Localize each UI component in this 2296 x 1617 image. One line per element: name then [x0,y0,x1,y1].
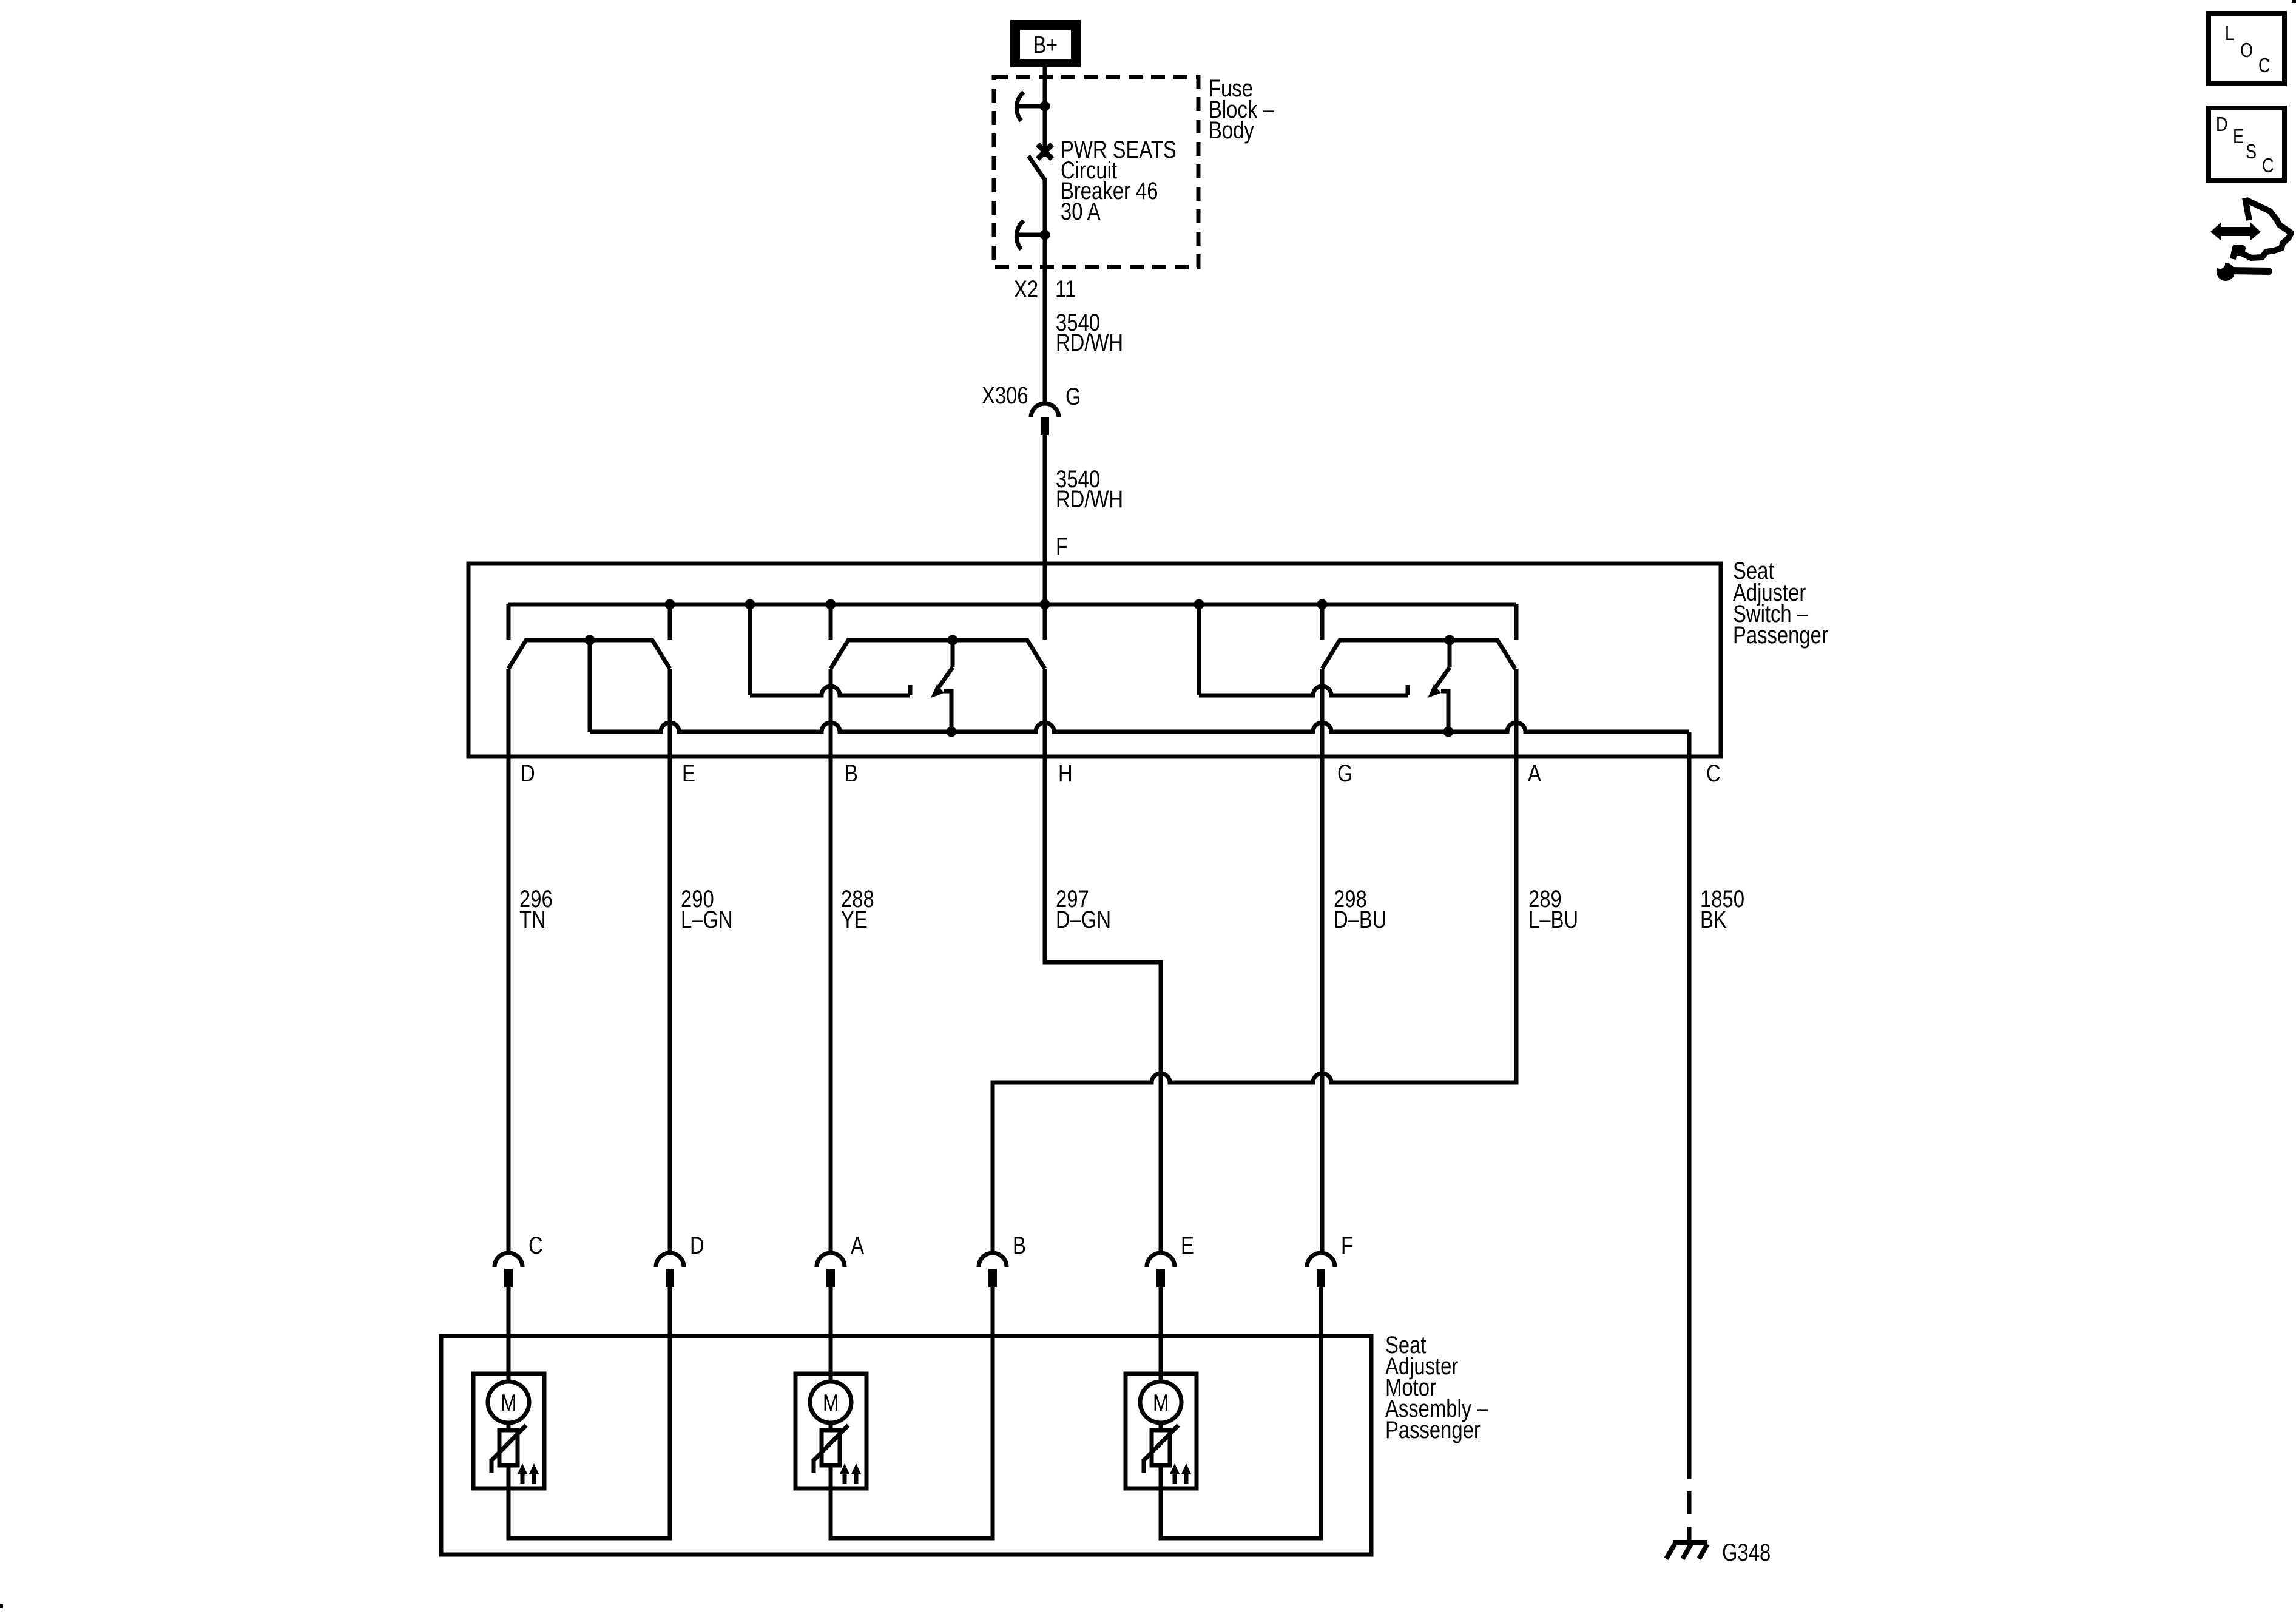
switch 1 (fore/aft) crossbar D-E [508,640,670,669]
bus feed to switch 2 fixed contact [748,604,752,695]
switch 3 blade (movable contact) [1448,640,1452,667]
junction dot (breaker top terminal) [1040,101,1050,112]
wire from B+ to circuit breaker [1043,67,1047,157]
fuse block label: Fuse Block - Body [1209,75,1274,144]
wire 288 YE : switch B to motor connector A [829,669,833,1253]
svg-text:M: M [501,1390,517,1416]
switch 3 fixed contact line with hop over G [1199,686,1408,695]
motor M3 rear height internal wire to PTC [1159,1423,1163,1430]
svg-text:L–GN: L–GN [681,906,733,933]
svg-text:A: A [1528,760,1541,787]
page corner mark top right [2292,0,2296,3]
motor assembly in-line connector pin D [656,1253,684,1267]
svg-text:BK: BK [1700,906,1727,933]
svg-text:A: A [851,1232,864,1259]
wire connector into motor M3 rear height [1159,1287,1163,1382]
motor assembly in-line connector pin B [979,1253,1007,1267]
motor assembly in-line connector pin C [495,1253,522,1267]
wire breaker to lower clip [1043,178,1047,235]
svg-text:11: 11 [1055,276,1076,303]
common return line to pin C (hops over E,B,H,G,A) [590,723,1689,732]
motor unit M2 front height outline [795,1374,866,1488]
motor assembly label [1385,1332,1488,1443]
svg-text:Passenger: Passenger [1733,622,1828,649]
PTC thermal protector of M3 rear height [1152,1430,1170,1465]
switch pin letters [521,760,1721,787]
svg-text:G: G [1337,760,1353,787]
testing/tools icon: wrench [2215,259,2272,281]
wire label 3540 RD/WH (upper) [1056,309,1123,356]
svg-text:C: C [1706,760,1721,787]
svg-text:Body: Body [1209,117,1254,144]
wire 290 L-GN : switch E to motor connector D [668,669,672,1253]
svg-text:E: E [2233,125,2244,147]
switch 1 crossbar junction dot [585,635,595,646]
circuit breaker label [1061,137,1177,225]
ground label G348 [1722,1539,1771,1566]
svg-text:L–BU: L–BU [1528,906,1578,933]
svg-text:D–GN: D–GN [1056,906,1111,933]
motor unit M1 fore/aft outline [473,1374,544,1488]
svg-text:D–BU: D–BU [1334,906,1387,933]
wire connector into motor M2 front height [829,1287,833,1382]
fuse block upper terminal clip [1016,92,1024,121]
motor M3 rear height symbol M [1140,1382,1181,1423]
bus junction dot x=1369 [826,599,836,610]
bus junction dot x=2179 [1317,599,1328,610]
page corner mark bottom left [0,1604,3,1608]
svg-text:C: C [528,1232,543,1259]
wire 297 D-GN : switch H jog to motor connector E [1045,669,1161,1253]
svg-text:Passenger: Passenger [1385,1417,1481,1443]
bus junction dot x=1976 [1194,599,1204,610]
motor M1 fore/aft symbol M [488,1382,529,1423]
switch 2 fixed contact line with hop over B [750,686,910,695]
svg-text:B: B [845,760,858,787]
seat adjuster switch - passenger box [468,564,1721,757]
bus junction dot x=1722 [1040,599,1050,610]
bus left end contact drop (to D switch) [507,604,511,640]
svg-text:X306: X306 [982,382,1028,409]
ground symbol G348 [1666,1542,1707,1559]
svg-text:E: E [682,760,695,787]
testing/tools icon: connector outline [2234,201,2291,258]
DESC reference box [2209,108,2284,180]
in-line connector X306 pin G [1031,403,1059,417]
svg-text:O: O [2240,39,2253,61]
bus contact drop at B [829,604,833,640]
svg-text:D: D [521,760,535,787]
motor unit M3 rear height outline [1126,1374,1197,1488]
PTC thermal protector of M1 fore/aft [499,1430,518,1465]
PTC thermal protector of M2 front height [822,1430,840,1465]
seat adjuster motor assembly - passenger box [441,1336,1371,1555]
B+ power symbol [1010,20,1081,67]
switch 3 (rear height) crossbar G-A [1322,640,1515,669]
wire X306 down into switch box (node F) [1043,435,1047,640]
fuse block lower terminal clip [1016,221,1024,249]
wire 298 D-BU : switch G to motor connector F [1320,669,1325,1253]
bus contact drop at G [1320,604,1325,640]
svg-text:TN: TN [519,906,546,933]
svg-text:RD/WH: RD/WH [1056,486,1123,513]
svg-text:M: M [1153,1390,1169,1416]
bus junction dot x=1104 [665,599,675,610]
switch 2 (front height) crossbar B-H [831,640,1045,669]
motor assembly in-line connector pin E [1147,1253,1175,1267]
motor M1 fore/aft internal wire to PTC [507,1423,511,1430]
PTC arrows of M2 front height [843,1473,847,1484]
svg-text:M: M [823,1390,839,1416]
switch 3 crossbar junction dot [1445,635,1455,646]
svg-text:L: L [2225,22,2234,44]
circuit breaker 46 PWR SEATS 30 A : contact X [1038,144,1052,159]
bus feed to switch 3 fixed contact [1197,604,1201,695]
svg-text:G348: G348 [1722,1539,1771,1566]
PTC arrows of M3 rear height [1173,1473,1177,1484]
junction dot (breaker bottom terminal) [1040,230,1050,240]
svg-text:B+: B+ [1033,32,1058,58]
switch 3 lower terminal [1441,691,1448,732]
svg-text:C: C [2262,154,2274,177]
svg-text:YE: YE [841,906,868,933]
switch box label [1733,558,1828,649]
svg-text:G: G [1065,383,1081,410]
wire 1850 BK : switch C to ground G348 (solid part) [1687,732,1692,1456]
fuse block - body dashed box [994,77,1198,267]
switch 1 common drop to lower line [588,640,592,732]
LOC reference box [2209,13,2284,84]
wire 1850 BK dashed part [1687,1456,1692,1541]
wire connector into motor M1 fore/aft [507,1287,511,1382]
svg-text:30 A: 30 A [1061,198,1101,225]
motor M2 front height symbol M [810,1382,851,1423]
bus contact drop at E [668,604,672,640]
bus junction dot x=1236 [745,599,755,610]
wire 296 TN : switch D to motor connector C [507,669,511,1253]
switch 2 lower terminal [944,691,951,732]
motor M1 fore/aft return wire U-loop [508,1287,670,1538]
motor assembly in-line connector pin F [1307,1253,1335,1267]
wire label 3540 RD/WH (lower) [1056,466,1123,513]
switch 2 crossbar junction dot [948,635,958,646]
testing/tools icon: double arrow [2210,222,2261,241]
motor M3 rear height return wire U-loop [1161,1287,1321,1538]
motor M2 front height return wire U-loop [831,1287,993,1538]
svg-text:F: F [1341,1232,1353,1259]
PTC arrows of M1 fore/aft [521,1473,525,1484]
svg-text:H: H [1058,760,1073,787]
motor M2 front height internal wire to PTC [829,1423,833,1430]
svg-text:RD/WH: RD/WH [1056,329,1123,356]
wire 289 L-BU : switch A jog to motor connector B (hops over E,F wires) [993,669,1516,1253]
svg-text:F: F [1056,533,1068,560]
svg-text:S: S [2246,140,2257,163]
motor assembly in-line connector pin A [817,1253,845,1267]
switch pin F label [1056,533,1068,560]
connector X2 pin 11 labels [1014,276,1076,303]
svg-text:D: D [2216,113,2228,135]
svg-text:C: C [2258,54,2271,76]
switch 2 blade (movable contact) [951,640,955,667]
internal bus wire from F [508,603,1516,607]
svg-text:B: B [1013,1232,1026,1259]
svg-text:X2: X2 [1014,276,1038,303]
svg-text:E: E [1181,1232,1194,1259]
circuit breaker blade [1028,156,1044,179]
wire from fuse block pin X2-11 down to X306 [1043,235,1047,402]
svg-text:D: D [690,1232,704,1259]
bus right end contact drop (to A switch) [1514,604,1519,640]
